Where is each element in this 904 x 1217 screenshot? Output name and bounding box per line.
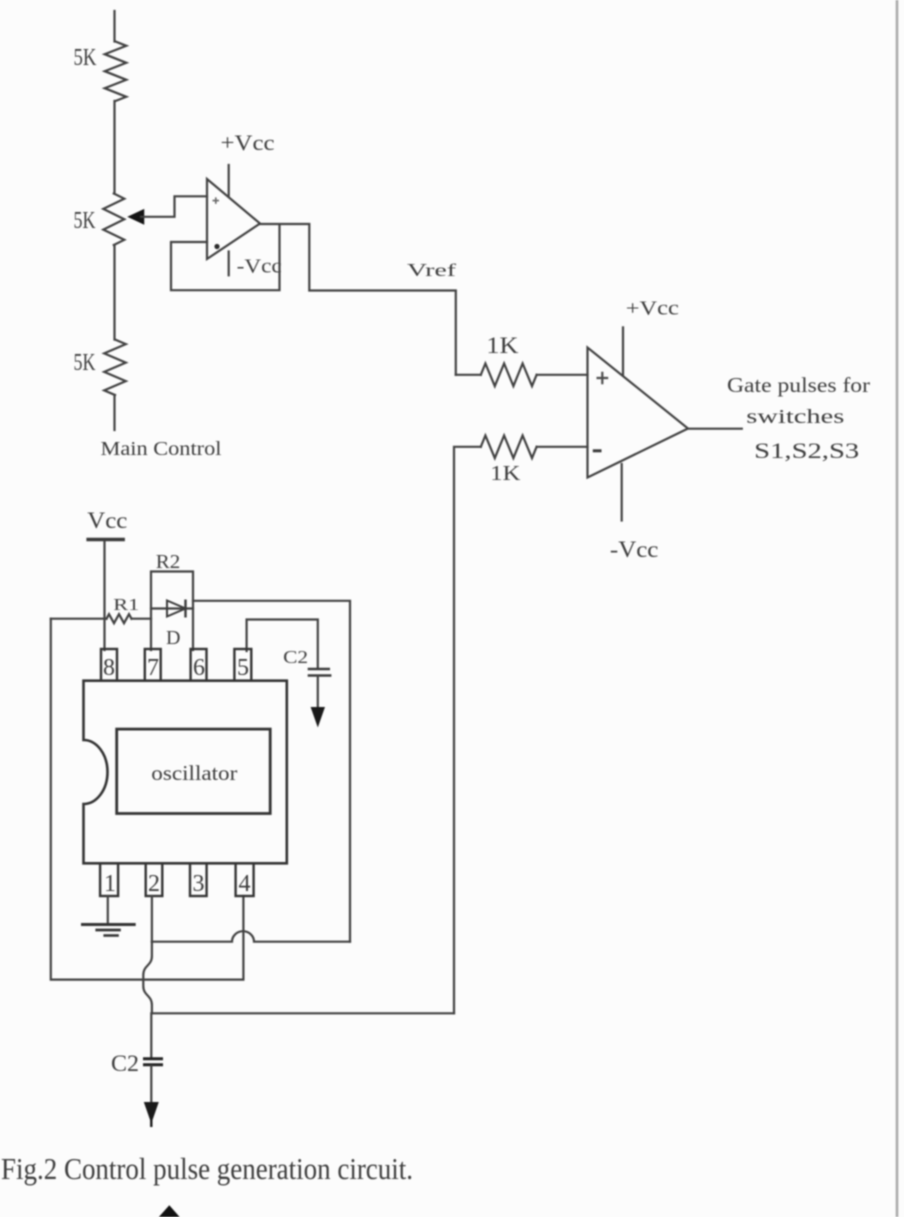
U1 minus input dot bbox=[214, 244, 219, 249]
svg-text:8: 8 bbox=[103, 655, 115, 681]
U2 plus input mark bbox=[597, 372, 609, 385]
wire C2 to arrow bbox=[317, 676, 319, 708]
svg-text:D: D bbox=[166, 627, 180, 649]
svg-text:oscillator: oscillator bbox=[151, 761, 237, 785]
svg-text:5K: 5K bbox=[74, 208, 96, 234]
arrow to negative rail (C2 top) bbox=[311, 708, 324, 727]
svg-text:R1: R1 bbox=[113, 595, 139, 614]
U2 output wire bbox=[688, 428, 742, 430]
U1 feedback loop wire bbox=[171, 226, 280, 291]
svg-text:1K: 1K bbox=[486, 333, 518, 358]
svg-text:5: 5 bbox=[237, 655, 249, 681]
wire left loop horizontal with resistor R1 bbox=[51, 618, 107, 620]
diode D triangle bbox=[167, 601, 186, 617]
pin 6 box bbox=[191, 649, 207, 681]
wire divider tail bbox=[113, 395, 115, 430]
pot wiper arrow bbox=[129, 210, 144, 224]
wire pin1 to ground bbox=[107, 896, 109, 923]
potentiometer 5K bbox=[103, 194, 124, 246]
svg-text:C2: C2 bbox=[283, 647, 308, 667]
pin 2 box bbox=[146, 863, 163, 896]
IC U3 body with notch bbox=[84, 681, 287, 864]
capacitor C2 bottom: plates bbox=[143, 1057, 163, 1060]
wire divider segment 1 bbox=[113, 101, 115, 194]
wire divider segment 2 bbox=[113, 245, 115, 340]
U2 -Vcc supply line bbox=[621, 464, 623, 521]
pin 3 box bbox=[190, 863, 207, 896]
wire R1 to pin7 stem bbox=[132, 618, 152, 620]
pin 5 box bbox=[234, 649, 251, 681]
wire R2/pin6 node to right drop bbox=[193, 601, 350, 942]
U1 plus input mark bbox=[213, 197, 220, 204]
svg-text:5K: 5K bbox=[74, 45, 98, 71]
ground symbol bar2 bbox=[95, 929, 120, 932]
wire pin2 continues down with hop over pin4 loop bbox=[143, 942, 152, 1014]
resistor 1K (upper) bbox=[481, 364, 537, 387]
arrow to negative rail (C2 bottom) bbox=[145, 1103, 159, 1123]
wire left loop to pin 4 bbox=[51, 619, 244, 980]
svg-text:Main Control: Main Control bbox=[101, 438, 222, 460]
wire pin5 to C2 top bbox=[247, 620, 318, 669]
wire junction down to C2 bottom bbox=[150, 1013, 152, 1056]
svg-text:7: 7 bbox=[147, 655, 159, 681]
wire Vcc to pin 8 bbox=[103, 541, 105, 650]
svg-text:3: 3 bbox=[193, 871, 205, 897]
wire top feed to divider bbox=[113, 11, 115, 42]
svg-text:1: 1 bbox=[104, 871, 116, 897]
wire bottom output run to comparator bbox=[152, 1012, 454, 1014]
pin 4 box bbox=[236, 863, 254, 896]
svg-text:1K: 1K bbox=[490, 461, 520, 485]
svg-text:C2: C2 bbox=[111, 1051, 139, 1076]
wire lower input riser from oscillator bbox=[454, 447, 481, 1014]
svg-text:Gate pulses for: Gate pulses for bbox=[727, 373, 870, 397]
wire Vref to 1K upper bbox=[456, 374, 481, 376]
U2 minus input mark bbox=[593, 449, 602, 452]
pin 7 box bbox=[145, 649, 161, 681]
svg-text:5K: 5K bbox=[74, 350, 96, 376]
wire pin2 junction across with hop over pin4 wire bbox=[152, 931, 350, 942]
capacitor C2 bottom plate bbox=[308, 674, 332, 677]
svg-text:R2: R2 bbox=[156, 551, 181, 573]
diode D cathode bar bbox=[184, 600, 186, 618]
resistor R1 bbox=[107, 614, 132, 623]
op-amp U1 bbox=[207, 179, 260, 259]
svg-text:-Vcc: -Vcc bbox=[237, 256, 282, 278]
resistor 5K R_bottom bbox=[104, 340, 126, 396]
pin 8 box bbox=[101, 649, 117, 681]
resistor 5K R_top bbox=[105, 42, 127, 102]
R2 branch box (pin7 to pin6) bbox=[151, 572, 193, 651]
svg-text:6: 6 bbox=[193, 655, 205, 681]
op-amp U2 bbox=[588, 348, 689, 478]
pin 1 box bbox=[100, 863, 118, 896]
svg-text:-Vcc: -Vcc bbox=[610, 537, 659, 562]
U2 +Vcc supply line bbox=[622, 327, 624, 375]
Vcc rail bar bbox=[86, 538, 125, 541]
diode D line bbox=[151, 607, 193, 609]
capacitor C2 top plate bbox=[308, 668, 330, 671]
svg-text:+Vcc: +Vcc bbox=[221, 130, 275, 155]
svg-text:switches: switches bbox=[746, 406, 844, 428]
svg-text:Vref: Vref bbox=[407, 260, 456, 280]
svg-text:+Vcc: +Vcc bbox=[626, 298, 679, 320]
svg-text:S1,S2,S3: S1,S2,S3 bbox=[754, 438, 859, 463]
svg-text:2: 2 bbox=[148, 871, 160, 897]
page right margin rule bbox=[896, 0, 899, 1217]
wire 1K lower to U2 bbox=[537, 446, 588, 448]
wire wiper to op-amp U1 bbox=[141, 196, 207, 217]
svg-text:4: 4 bbox=[239, 871, 251, 897]
U1 +Vcc supply line bbox=[228, 165, 230, 196]
ground symbol bar3 bbox=[103, 934, 118, 937]
resistor 1K (lower) bbox=[481, 436, 537, 459]
svg-text:Fig.2 Control pulse generation: Fig.2 Control pulse generation circuit. bbox=[1, 1151, 413, 1186]
U1 output wire to Vref node bbox=[260, 224, 456, 375]
oscillator inner box bbox=[117, 729, 271, 813]
wire C2 bottom tail bbox=[150, 1066, 152, 1103]
wire 1K upper to U2 bbox=[537, 374, 588, 376]
ground symbol bar1 bbox=[81, 923, 136, 926]
wire pin2 down to junction bbox=[151, 896, 153, 942]
U1 -Vcc supply line bbox=[228, 252, 230, 276]
page bottom arrowhead bbox=[160, 1206, 180, 1217]
svg-text:Vcc: Vcc bbox=[87, 508, 127, 533]
